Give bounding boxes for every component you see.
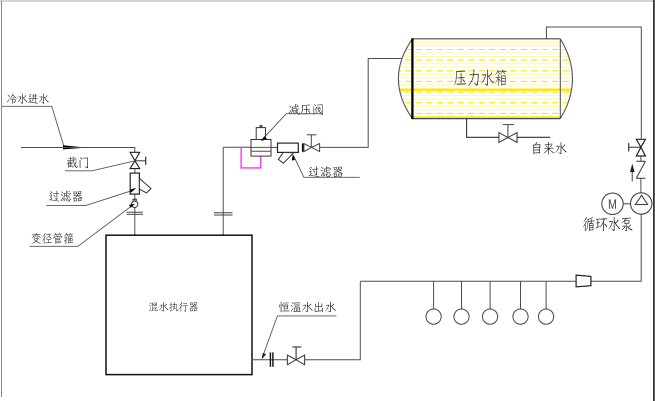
- mixing actuator box 混水执行器: [106, 235, 252, 374]
- wire: check valve to pump: [640, 178, 642, 193]
- outlet circle 4: [513, 309, 528, 324]
- leader for 变径管箍: [30, 207, 131, 247]
- label: 自来水: [533, 142, 567, 155]
- manifold drop 4: [520, 281, 522, 309]
- reducing coupling small circle symbol: [132, 201, 138, 207]
- manifold drop 5: [545, 281, 547, 309]
- label: 截门: [67, 157, 88, 169]
- leader for 截门: [65, 161, 134, 171]
- leader arrowhead at outlet pipe: [262, 353, 266, 360]
- label: 恒温水出水: [279, 302, 336, 313]
- reducing valve internal lines: [251, 146, 271, 148]
- label: 过滤器 (left): [49, 191, 82, 202]
- circulating pump circle: [631, 193, 652, 214]
- leader arrowhead at filter flag: [292, 154, 295, 161]
- check valve flow arrow: [631, 171, 633, 182]
- pressure tank 压力水箱 shell: [384, 36, 586, 121]
- wire: pump down and corner to manifold: [591, 214, 641, 281]
- motor circle M: [602, 193, 623, 214]
- outlet circle 2: [454, 309, 469, 324]
- tap water valve 自来水 bowtie: [499, 133, 517, 143]
- wire: outlet to riser corner: [305, 281, 361, 360]
- wire: coupling down to union: [134, 208, 136, 236]
- manifold drop 3: [489, 281, 491, 309]
- leader arrowhead at reducing valve: [261, 136, 267, 141]
- label: 减压阀: [289, 104, 323, 115]
- wire: valve to filter: [134, 169, 136, 173]
- valve (截门 stop valve) bowtie: [130, 152, 140, 168]
- wire: tank bottom drain: [467, 119, 499, 138]
- leader underline for 冷水进水: [2, 106, 64, 147]
- manifold drop 1: [433, 281, 435, 309]
- union (double line) on left inlet: [127, 211, 143, 213]
- filter F1 (vertical 过滤器) body: [130, 173, 139, 194]
- wire: cold water horizontal pipe: [21, 148, 135, 153]
- outlet circle 5: [539, 309, 554, 324]
- check valve (swing): [636, 161, 645, 178]
- wire: corner down from reducing-valve line to mixer: [222, 147, 224, 235]
- filter F2 diagonal screen flag: [278, 152, 293, 163]
- wire: tap water stub: [517, 136, 550, 138]
- label: 混水执行器: [149, 302, 198, 312]
- pump impeller triangle: [635, 195, 647, 204]
- wire: outlet from mixer: [252, 359, 287, 361]
- globe valve after filter: thick seat bar: [302, 143, 304, 151]
- union (double bars) on outlet: [269, 352, 271, 366]
- label: 过滤器 (right): [309, 166, 343, 177]
- label: 变径管箍: [32, 233, 74, 244]
- label: cold water inlet 冷水进水: [7, 94, 49, 104]
- wire: valve to tank riser: [320, 59, 404, 148]
- frame top border: [0, 0, 655, 2]
- tank left head thick edge: [411, 38, 413, 119]
- leader for left 过滤器: [47, 190, 134, 205]
- label: 压力水箱: [454, 69, 506, 86]
- reducing valve body: [251, 140, 271, 157]
- leader for right 过滤器: [294, 156, 360, 178]
- wire: tank top riser: [546, 27, 641, 139]
- stop valve on riser (right) bowtie: [636, 139, 645, 156]
- leader for 恒温水出水: [262, 316, 336, 358]
- leader arrowhead into filter: [129, 188, 136, 193]
- reducer symbol on manifold: [576, 275, 591, 287]
- right valve stem to left: [629, 146, 641, 148]
- tank outline caps: [398, 39, 412, 119]
- tap valve stem: [507, 125, 509, 138]
- leader arrowhead at coupling: [129, 204, 135, 208]
- valve stem with T-bar: [135, 160, 146, 162]
- wire: reducing valve to filter: [271, 146, 278, 148]
- magenta pilot line of reducing valve: [241, 148, 261, 168]
- wire: manifold horizontal: [360, 280, 576, 282]
- outlet circle 3: [483, 309, 498, 324]
- outlet valve stem: [295, 347, 297, 360]
- frame left border: [1, 1, 3, 397]
- filter F1 diagonal screen flag: [139, 178, 151, 193]
- frame right border: [653, 0, 655, 401]
- wire: pipe into reducing valve: [223, 146, 251, 148]
- manifold drop 2: [461, 281, 463, 309]
- globe valve stem + handle: [310, 135, 312, 147]
- union (double line) on middle inlet: [214, 212, 233, 214]
- wire: filter down: [134, 194, 136, 201]
- tank body outline: [412, 38, 560, 40]
- globe valve bowtie: [304, 144, 320, 152]
- pressure reducing valve 减压阀: top dot: [259, 125, 262, 128]
- filter F2 (horizontal 过滤器) body: [278, 143, 299, 152]
- leader solid arrow on cold water line: [63, 145, 87, 149]
- outlet circle 1: [426, 309, 441, 324]
- wire: valve to check valve: [640, 156, 642, 161]
- motor-pump coupling line: [623, 203, 630, 205]
- label: 循环水泵: [583, 217, 633, 231]
- leader for 减压阀: [263, 114, 324, 140]
- reducing valve bonnet: [256, 128, 265, 140]
- outlet valve bowtie: [287, 355, 304, 365]
